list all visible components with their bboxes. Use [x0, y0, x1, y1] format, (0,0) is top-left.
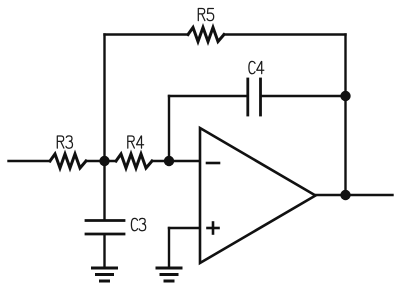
capacitor C3	[86, 221, 124, 235]
ground under C3	[93, 268, 117, 281]
node B junction dot	[164, 156, 174, 166]
op-amp U1	[200, 128, 316, 263]
wire feedback left vertical	[103, 35, 105, 162]
wire node A down to C3	[103, 161, 105, 219]
ground under + input	[157, 268, 181, 281]
wire R3 to node A	[86, 160, 116, 162]
label R5	[198, 9, 213, 21]
wire top left to R5	[105, 33, 189, 35]
op-amp plus sign	[208, 223, 219, 234]
wire output	[316, 194, 393, 196]
label C3	[131, 218, 145, 230]
wire C3 to ground	[103, 235, 105, 267]
op-amp minus sign	[207, 162, 219, 165]
node C junction dot	[340, 91, 350, 101]
wire C4 right lead	[262, 95, 346, 97]
wire down to ground from + input	[168, 228, 170, 267]
resistor R3	[50, 154, 86, 168]
wire node B up to C4 branch	[168, 96, 170, 161]
wire R4 to op-amp inverting input	[152, 160, 199, 162]
resistor R5	[188, 28, 224, 42]
wire non-inverting input	[169, 227, 199, 229]
wire R5 to top right corner	[224, 33, 346, 35]
label C4	[249, 61, 264, 73]
capacitor C4	[248, 79, 261, 115]
node A junction dot	[99, 156, 109, 166]
label R4	[128, 136, 144, 148]
wire C4 left lead	[169, 95, 247, 97]
wire input left	[9, 160, 51, 162]
label R3	[57, 136, 72, 148]
resistor R4	[116, 154, 152, 168]
wire right vertical	[344, 35, 346, 196]
node D junction dot (output)	[340, 190, 350, 200]
